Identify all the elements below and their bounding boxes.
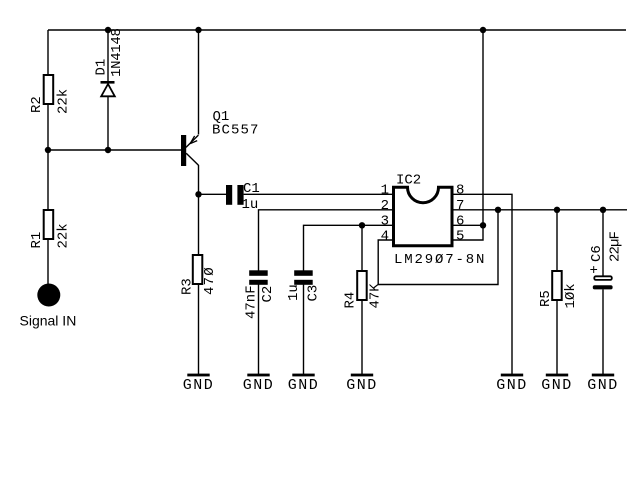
svg-text:C2: C2	[260, 286, 276, 303]
svg-text:GND: GND	[496, 377, 528, 394]
svg-text:47K: 47K	[368, 283, 384, 309]
wire +V top rail	[48, 29, 626, 31]
wire base	[48, 149, 181, 151]
ground GND C2	[243, 374, 275, 394]
wire pin 3 to C3	[304, 225, 393, 270]
resistor R5	[538, 271, 579, 309]
svg-text:47nF: 47nF	[244, 285, 260, 319]
svg-text:GND: GND	[288, 377, 320, 394]
svg-text:6: 6	[456, 214, 464, 230]
svg-text:4: 4	[381, 229, 389, 245]
wire pin 4 feedback loop	[378, 210, 498, 285]
node pin4 pin7 junction	[495, 207, 501, 213]
ground GND pin8	[496, 374, 528, 394]
svg-text:47Ø: 47Ø	[202, 266, 218, 295]
wire R4 to ground	[361, 300, 363, 374]
node junction rail Q1 emitter	[195, 27, 201, 33]
svg-text:LM29Ø7-8N: LM29Ø7-8N	[394, 252, 486, 268]
svg-text:IC2: IC2	[396, 173, 421, 189]
svg-text:C3: C3	[306, 285, 322, 302]
svg-text:GND: GND	[243, 377, 275, 394]
wire pin3 junction to R4	[361, 225, 363, 271]
svg-text:7: 7	[456, 198, 464, 214]
svg-text:2: 2	[381, 198, 389, 214]
ground GND R5	[541, 374, 573, 394]
wire R3 to ground	[198, 284, 200, 374]
svg-text:22µF: 22µF	[608, 231, 624, 262]
ground GND C3	[288, 374, 320, 394]
diode D1	[94, 28, 126, 96]
svg-text:1: 1	[381, 183, 389, 199]
terminal Signal IN	[20, 284, 77, 329]
svg-text:+: +	[590, 263, 598, 279]
capacitor C2	[244, 270, 277, 319]
node pin3 R4 junction	[359, 222, 365, 228]
svg-text:R1: R1	[29, 232, 45, 249]
wire pin 7 output rail	[453, 209, 627, 211]
svg-text:R4: R4	[343, 292, 359, 309]
capacitor C1	[226, 181, 260, 213]
svg-text:C6: C6	[589, 245, 605, 262]
wire pin 2 to C2	[259, 210, 393, 271]
wire pin 6	[453, 224, 483, 226]
svg-text:R3: R3	[180, 278, 196, 295]
resistor R2	[29, 75, 72, 114]
svg-text:R2: R2	[29, 96, 45, 113]
wire R2 to base node	[47, 104, 49, 150]
wire pin6 column to +V rail	[482, 30, 484, 225]
svg-text:GND: GND	[183, 377, 215, 394]
wire collector down	[198, 165, 200, 194]
resistor R1	[29, 210, 72, 249]
svg-text:22k: 22k	[56, 89, 72, 114]
node R5 junction	[554, 207, 560, 213]
svg-text:5: 5	[456, 229, 464, 245]
svg-text:3: 3	[381, 214, 389, 230]
wire output to C6	[602, 210, 604, 276]
wire D1 anode to base wire	[107, 97, 109, 150]
svg-text:1u: 1u	[286, 284, 302, 301]
wire C6 to ground	[602, 289, 604, 374]
wire C2 to ground	[258, 285, 260, 375]
wire collector to C1	[199, 193, 227, 195]
wire base node to R1	[47, 150, 49, 210]
wire D1 cathode to rail	[107, 30, 109, 82]
node +V junction at D1	[105, 27, 111, 33]
wire R1 to input terminal	[47, 239, 49, 285]
node divider junction	[45, 147, 51, 153]
capacitor C3	[286, 270, 322, 301]
node D1-base junction	[105, 147, 111, 153]
svg-text:GND: GND	[541, 377, 573, 394]
ground GND C6	[587, 374, 619, 394]
ground GND R4	[346, 374, 378, 394]
node junction pin6 column at rail	[480, 27, 486, 33]
wire R5 to ground	[556, 300, 558, 374]
wire C1 to pin 1	[244, 193, 392, 195]
ground GND R3	[183, 374, 215, 394]
wire pin 8 to ground	[453, 194, 512, 374]
svg-text:GND: GND	[587, 377, 619, 394]
wire output to R5	[556, 210, 558, 271]
resistor R4	[343, 271, 384, 309]
wire collector node to R3	[198, 194, 200, 255]
node C6 junction	[600, 207, 606, 213]
capacitor C6 electrolytic	[589, 231, 624, 289]
svg-text:1N4148: 1N4148	[109, 28, 125, 77]
wire C3 to ground	[303, 285, 305, 375]
node pin5 pin6 junction	[480, 222, 486, 228]
svg-text:1u: 1u	[242, 197, 259, 213]
transistor Q1	[181, 109, 260, 166]
svg-text:1Øk: 1Øk	[563, 283, 579, 308]
svg-text:BC557: BC557	[212, 123, 260, 139]
svg-text:GND: GND	[346, 377, 378, 394]
svg-text:D1: D1	[94, 59, 110, 76]
svg-text:22k: 22k	[56, 223, 72, 248]
wire left supply column	[47, 30, 49, 76]
op-amp IC2 LM2907 body	[394, 173, 487, 269]
svg-text:Signal IN: Signal IN	[20, 313, 77, 329]
svg-text:8: 8	[456, 183, 464, 199]
wire pin 5	[453, 225, 483, 240]
node collector C1 R3 junction	[195, 191, 201, 197]
resistor R3	[180, 255, 219, 295]
svg-text:R5: R5	[538, 290, 554, 307]
wire emitter to rail	[198, 30, 200, 135]
